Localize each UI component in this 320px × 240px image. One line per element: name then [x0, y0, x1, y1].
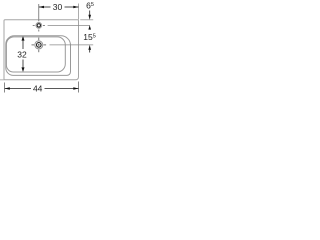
- svg-text:44: 44: [33, 84, 43, 94]
- svg-text:32: 32: [17, 50, 27, 60]
- svg-text:30: 30: [53, 2, 63, 12]
